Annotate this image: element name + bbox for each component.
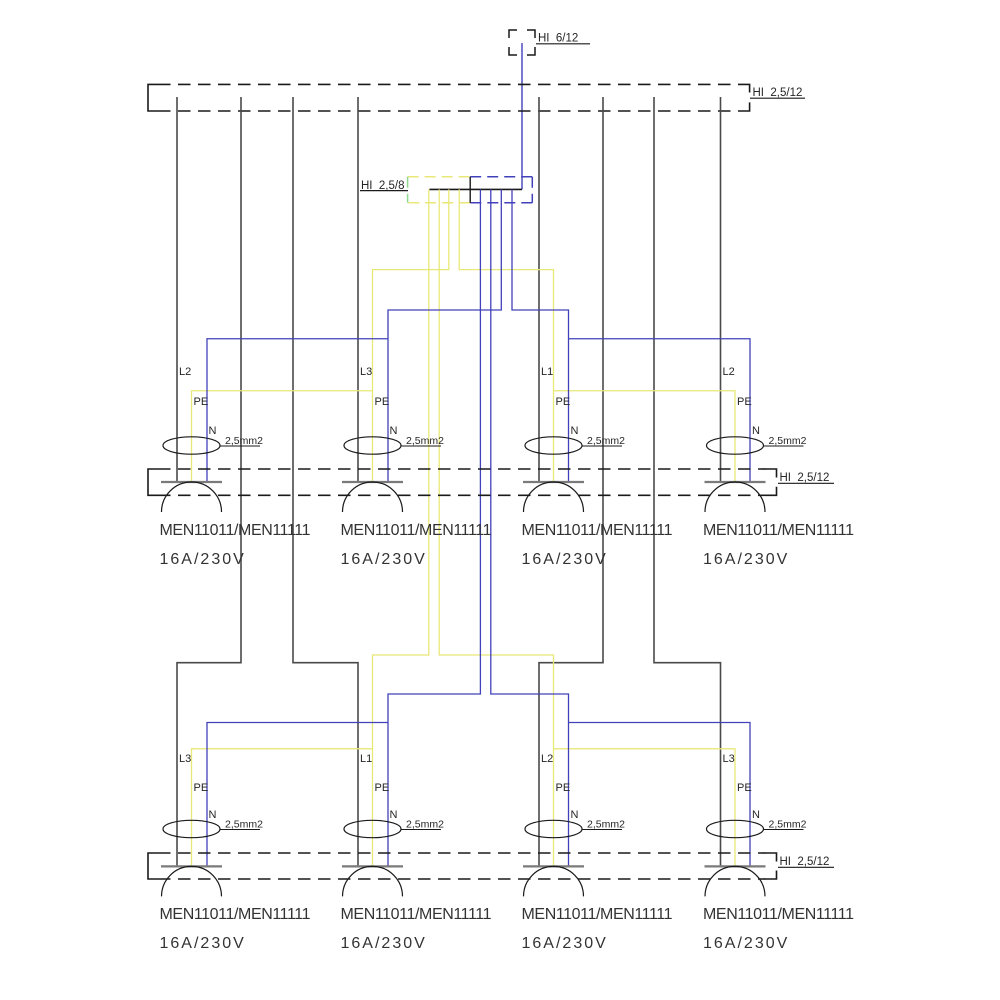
svg-text:N: N [209, 809, 217, 821]
socket arc [162, 482, 222, 512]
svg-text:MEN11011/MEN11111: MEN11011/MEN11111 [703, 522, 854, 539]
svg-text:2,5mm2: 2,5mm2 [406, 435, 444, 447]
socket arc [524, 866, 584, 896]
cable tray HI 2,5/12 (middle) [148, 469, 834, 495]
cable tray HI 2,5/12 (top) [148, 84, 805, 111]
PE wire (yellow) to upper sockets X3/X4 [459, 189, 735, 482]
svg-text:2,5mm2: 2,5mm2 [587, 435, 625, 447]
svg-text:2,5mm2: 2,5mm2 [225, 819, 263, 831]
socket outlet X3 MEN11011/MEN11111 [522, 366, 673, 568]
phase wire to lower socket X7 [539, 97, 603, 866]
phase wire to upper socket X2 [357, 97, 359, 482]
svg-text:16A/230V: 16A/230V [341, 551, 427, 568]
svg-text:2,5mm2: 2,5mm2 [769, 435, 807, 447]
socket terminal line [523, 865, 584, 867]
socket outlet X4 MEN11011/MEN11111 [703, 366, 854, 568]
svg-text:2,5mm2: 2,5mm2 [587, 819, 625, 831]
cable ellipse [344, 437, 401, 454]
phase wire to upper socket X1 [176, 97, 178, 482]
svg-text:HI 6/12: HI 6/12 [538, 33, 578, 45]
neutral wire (blue) to lower sockets X7/X8 [491, 189, 750, 866]
svg-text:MEN11011/MEN11111: MEN11011/MEN11111 [341, 906, 492, 923]
neutral wire (blue) to upper sockets X1/X2 [207, 189, 501, 482]
svg-text:16A/230V: 16A/230V [522, 935, 608, 952]
svg-text:MEN11011/MEN11111: MEN11011/MEN11111 [160, 906, 311, 923]
svg-text:L1: L1 [541, 366, 553, 378]
socket outlet X1 MEN11011/MEN11111 [160, 366, 311, 568]
svg-text:2,5mm2: 2,5mm2 [225, 435, 263, 447]
leader line [764, 445, 804, 447]
cable ellipse [163, 437, 220, 454]
svg-text:16A/230V: 16A/230V [341, 935, 427, 952]
svg-text:L2: L2 [541, 753, 553, 765]
svg-text:MEN11011/MEN11111: MEN11011/MEN11111 [703, 906, 854, 923]
svg-text:PE: PE [194, 782, 209, 794]
svg-text:MEN11011/MEN11111: MEN11011/MEN11111 [341, 522, 492, 539]
socket terminal line [161, 865, 222, 867]
socket terminal line [342, 865, 403, 867]
svg-text:L2: L2 [179, 366, 191, 378]
svg-text:L3: L3 [179, 753, 191, 765]
socket outlet X5 MEN11011/MEN11111 [160, 753, 311, 952]
svg-text:PE: PE [556, 396, 571, 408]
svg-text:16A/230V: 16A/230V [703, 551, 789, 568]
svg-text:HI 2,5/12: HI 2,5/12 [780, 856, 830, 868]
leader line [582, 829, 622, 831]
svg-text:N: N [571, 425, 579, 437]
svg-text:N: N [209, 425, 217, 437]
leader line [401, 445, 441, 447]
svg-text:HI 2,5/12: HI 2,5/12 [780, 472, 830, 484]
svg-text:16A/230V: 16A/230V [160, 935, 246, 952]
PE wire (yellow) to lower sockets X5/X6 [192, 189, 429, 866]
phase wire to lower socket X8 [654, 97, 721, 866]
phase wire to upper socket X4 [720, 97, 722, 482]
supply wire L (blue) [521, 43, 523, 189]
supply point HI 6/12 [509, 30, 590, 55]
cable ellipse [344, 820, 401, 837]
svg-text:L3: L3 [360, 366, 372, 378]
svg-text:N: N [752, 425, 760, 437]
phase wire to upper socket X3 [538, 97, 540, 482]
cable tray HI 2,5/12 (bottom) [148, 853, 834, 879]
socket arc [705, 866, 765, 896]
svg-text:N: N [390, 425, 398, 437]
PE wire (yellow) to upper sockets X1/X2 [192, 189, 449, 482]
cable ellipse [707, 437, 764, 454]
svg-text:PE: PE [737, 782, 752, 794]
neutral wire (blue) to upper sockets X3/X4 [512, 189, 750, 482]
socket arc [524, 482, 584, 512]
socket outlet X6 MEN11011/MEN11111 [341, 753, 492, 952]
leader line [764, 829, 804, 831]
leader line [582, 445, 622, 447]
socket arc [162, 866, 222, 896]
svg-text:MEN11011/MEN11111: MEN11011/MEN11111 [522, 522, 673, 539]
socket outlet X2 MEN11011/MEN11111 [341, 366, 492, 568]
leader line [401, 829, 441, 831]
svg-text:2,5mm2: 2,5mm2 [769, 819, 807, 831]
svg-text:16A/230V: 16A/230V [522, 551, 608, 568]
svg-text:PE: PE [556, 782, 571, 794]
cable ellipse [525, 437, 582, 454]
cable ellipse [525, 820, 582, 837]
socket outlet X8 MEN11011/MEN11111 [703, 753, 854, 952]
leader line [220, 445, 260, 447]
svg-text:16A/230V: 16A/230V [703, 935, 789, 952]
PE wire (yellow) to lower sockets X7/X8 [439, 189, 735, 866]
svg-text:16A/230V: 16A/230V [160, 551, 246, 568]
socket outlet X7 MEN11011/MEN11111 [522, 753, 673, 952]
svg-text:PE: PE [737, 396, 752, 408]
phase wire to lower socket X6 [293, 97, 358, 866]
svg-text:N: N [390, 809, 398, 821]
neutral wire (blue) to lower sockets X5/X6 [207, 189, 480, 866]
socket terminal line [342, 481, 403, 483]
phase wire to lower socket X5 [177, 97, 241, 866]
svg-text:PE: PE [375, 782, 390, 794]
socket terminal line [523, 481, 584, 483]
svg-text:L1: L1 [360, 753, 372, 765]
svg-text:MEN11011/MEN11111: MEN11011/MEN11111 [522, 906, 673, 923]
svg-text:PE: PE [194, 396, 209, 408]
socket arc [705, 482, 765, 512]
svg-text:HI 2,5/12: HI 2,5/12 [753, 87, 803, 99]
cable ellipse [707, 820, 764, 837]
socket arc [343, 866, 403, 896]
socket arc [343, 482, 403, 512]
svg-text:L2: L2 [723, 366, 735, 378]
svg-text:MEN11011/MEN11111: MEN11011/MEN11111 [160, 522, 311, 539]
cable ellipse [163, 820, 220, 837]
svg-text:N: N [571, 809, 579, 821]
svg-text:PE: PE [375, 396, 390, 408]
leader line [220, 829, 260, 831]
socket terminal line [161, 481, 222, 483]
socket terminal line [705, 481, 766, 483]
socket terminal line [705, 865, 766, 867]
svg-text:2,5mm2: 2,5mm2 [406, 819, 444, 831]
svg-text:L3: L3 [723, 753, 735, 765]
svg-text:N: N [752, 809, 760, 821]
junction box HI 2,5/8 [360, 177, 532, 203]
